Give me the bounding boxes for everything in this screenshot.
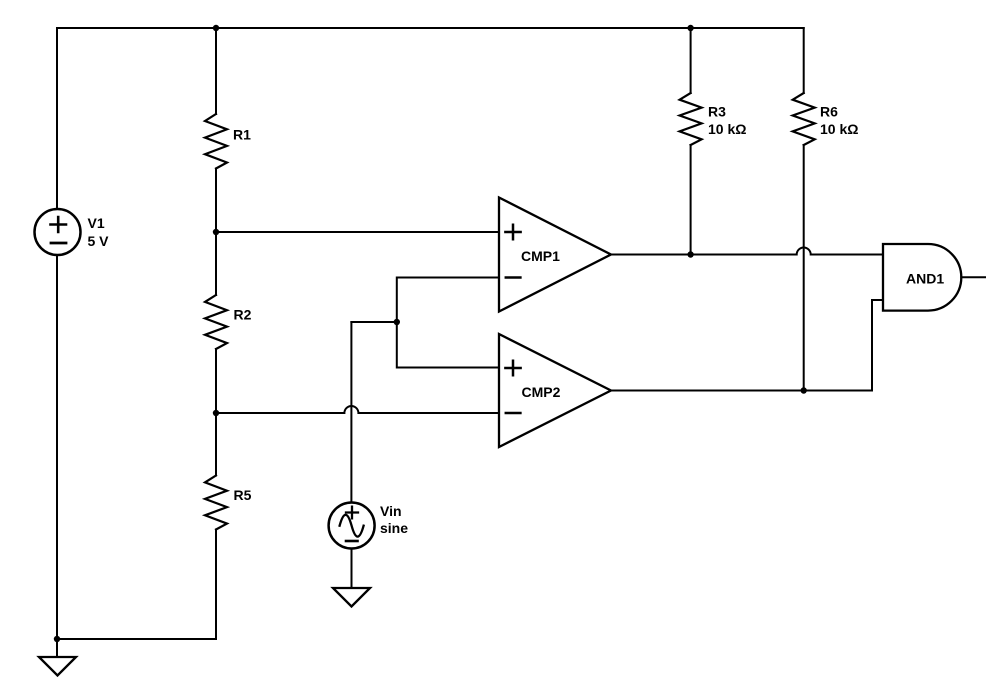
svg-text:CMP2: CMP2 <box>522 384 561 400</box>
svg-text:V1: V1 <box>88 215 105 231</box>
svg-text:sine: sine <box>380 520 408 536</box>
svg-text:R5: R5 <box>234 487 252 503</box>
svg-text:CMP1: CMP1 <box>521 248 560 264</box>
svg-text:5 V: 5 V <box>88 233 110 249</box>
svg-text:10 kΩ: 10 kΩ <box>820 121 858 137</box>
svg-text:R6: R6 <box>820 104 838 120</box>
svg-text:Vin: Vin <box>380 503 402 519</box>
svg-text:AND1: AND1 <box>906 271 944 287</box>
svg-text:R2: R2 <box>234 307 252 323</box>
svg-text:R1: R1 <box>233 127 251 143</box>
svg-text:10 kΩ: 10 kΩ <box>708 121 746 137</box>
svg-text:R3: R3 <box>708 104 726 120</box>
